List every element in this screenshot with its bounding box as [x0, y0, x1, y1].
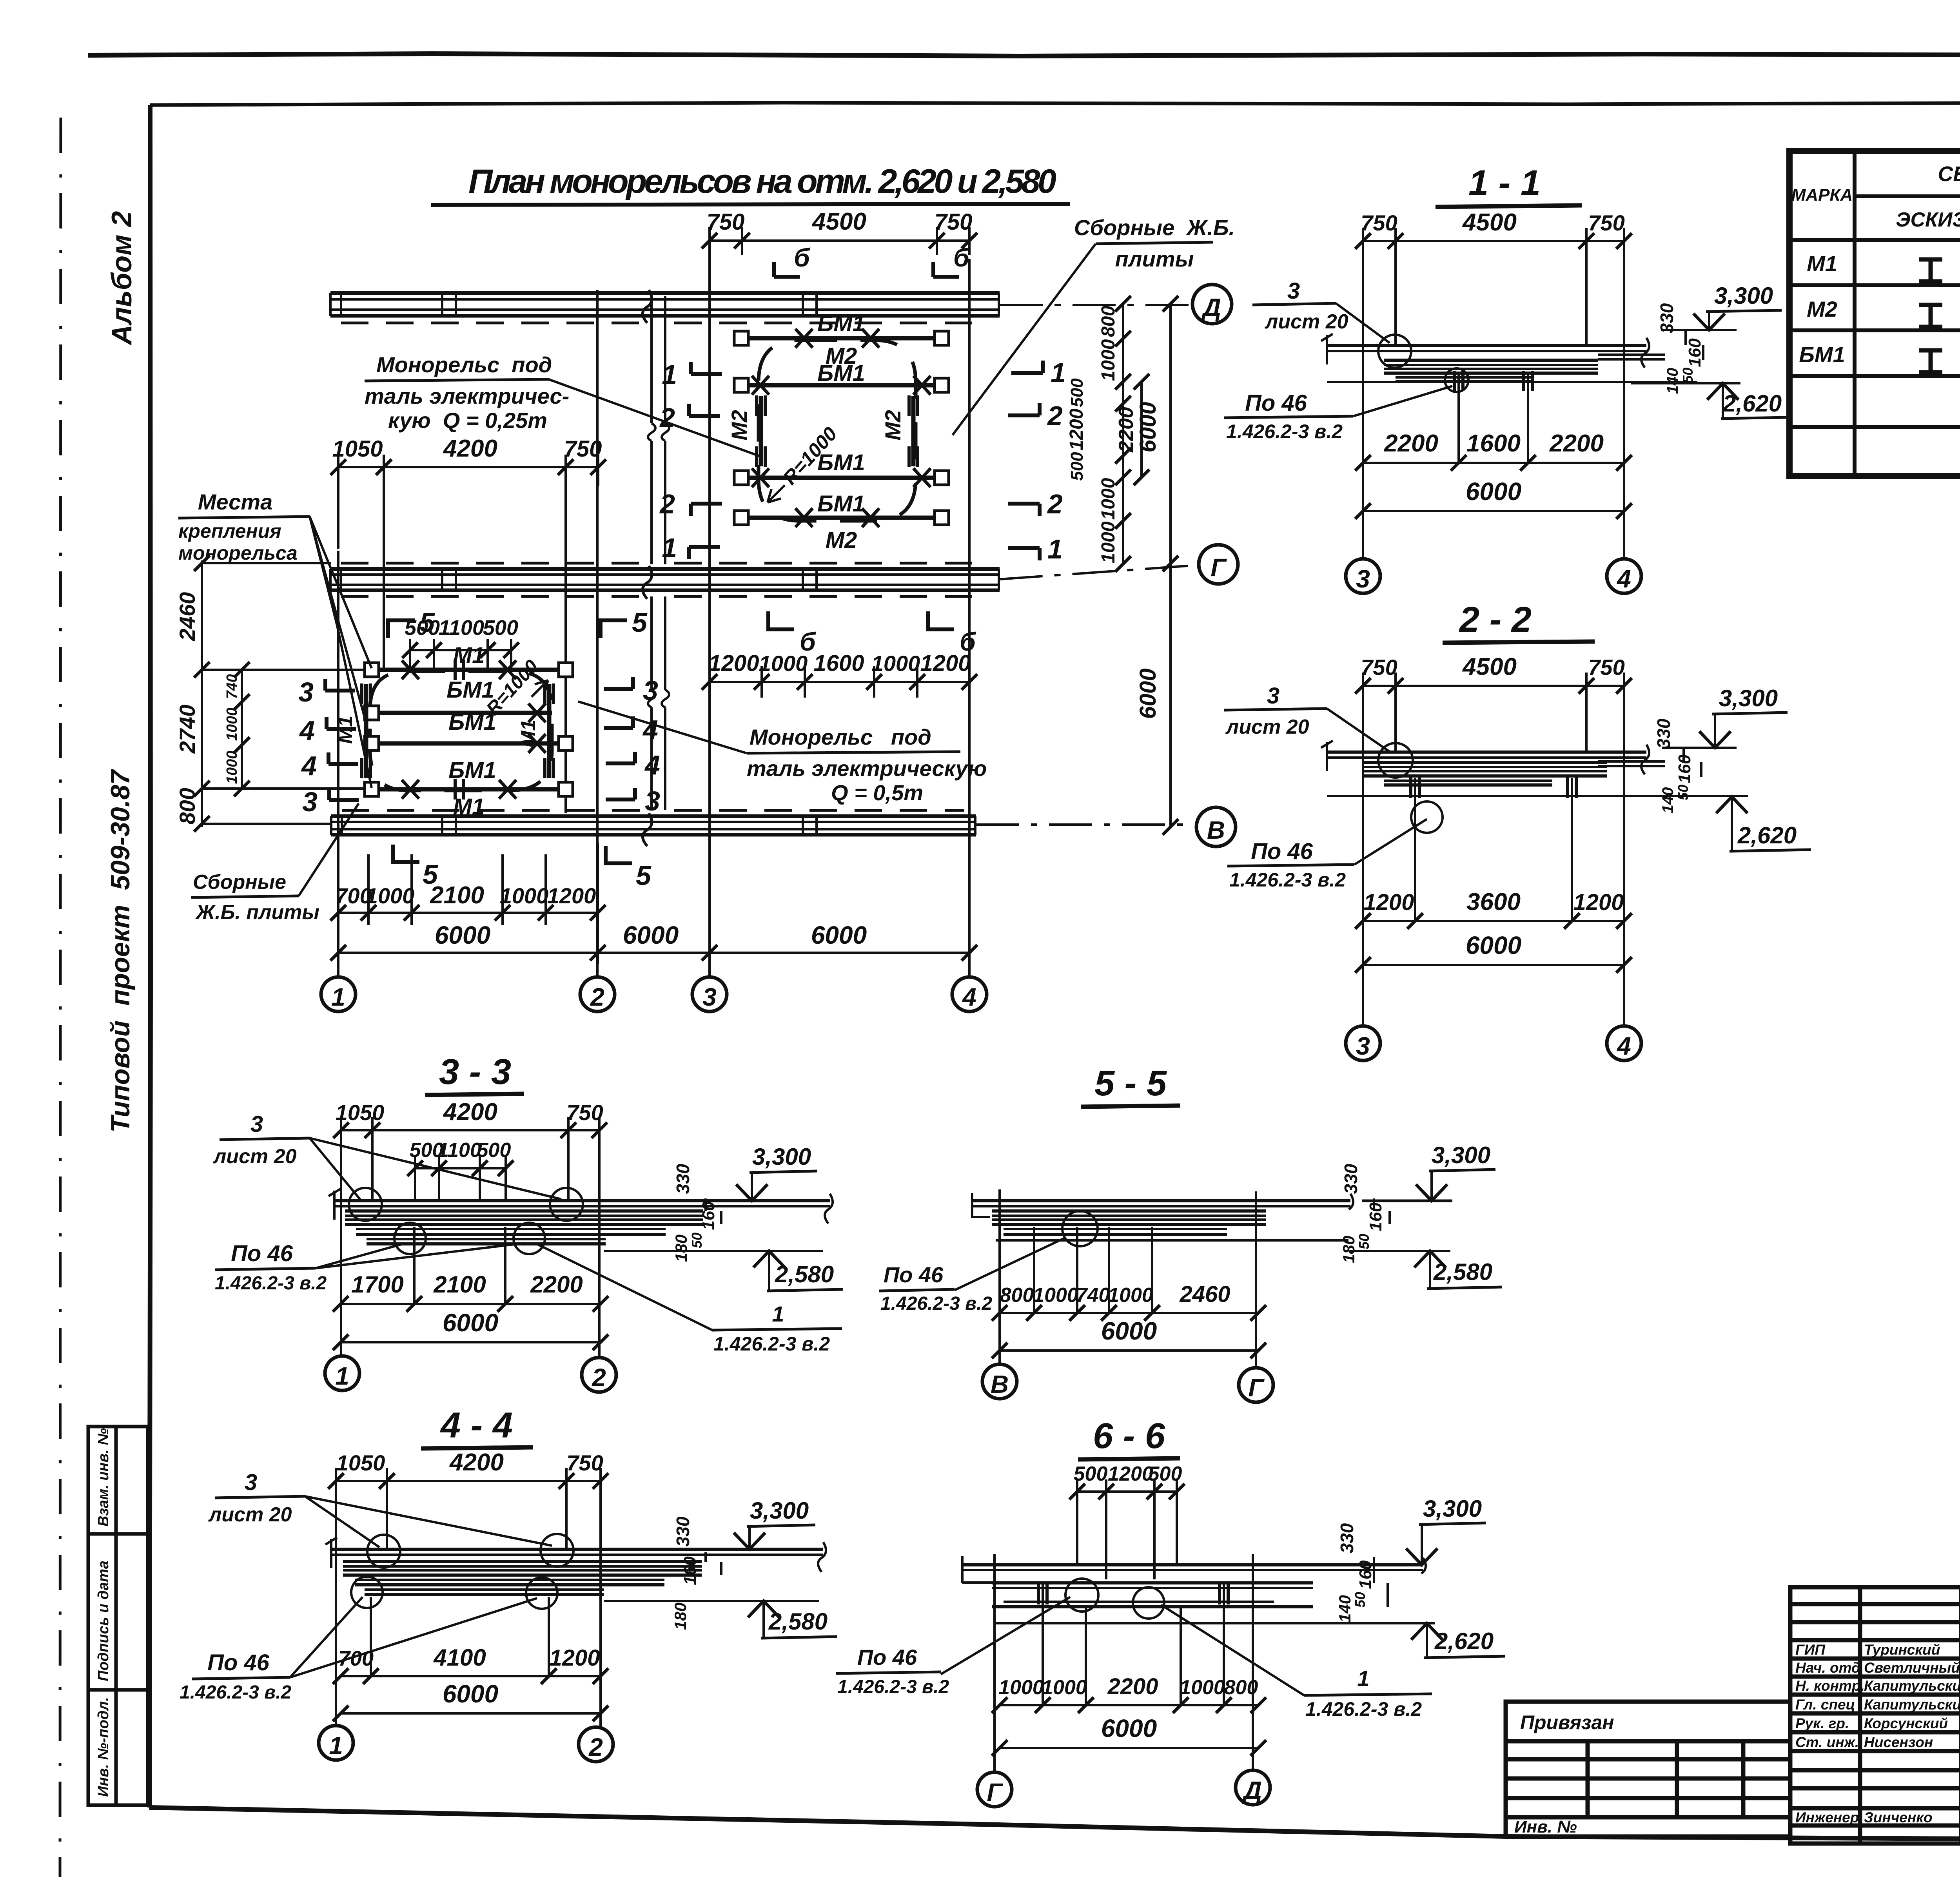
svg-text:6 - 6: 6 - 6	[1093, 1416, 1165, 1456]
section 4-4 top dims 1050/4200/750	[336, 1468, 601, 1728]
svg-text:750: 750	[707, 209, 745, 235]
svg-text:4: 4	[299, 715, 315, 746]
svg-text:3: 3	[1287, 278, 1300, 304]
svg-text:3: 3	[1356, 565, 1370, 593]
section 2-2 dims 1200/3600/1200	[1363, 920, 1624, 922]
svg-text:БМ1: БМ1	[817, 361, 865, 386]
svg-text:Ст. инж.: Ст. инж.	[1795, 1734, 1859, 1750]
section 1-1 dim 6000	[1363, 510, 1624, 512]
svg-text:1.426.2-3 в.2: 1.426.2-3 в.2	[1226, 421, 1343, 442]
section 2-2 dim 6000	[1363, 964, 1624, 966]
section 3-3 weld circles bottom	[394, 1223, 426, 1254]
left vertical dims 2460/2740/800	[202, 560, 370, 827]
svg-text:330: 330	[673, 1164, 693, 1194]
svg-text:б: б	[800, 627, 817, 656]
svg-text:6000: 6000	[443, 1309, 498, 1337]
svg-text:Типовой проект 509-30.87: Типовой проект 509-30.87	[105, 769, 135, 1133]
svg-text:Корсунский: Корсунский	[1864, 1715, 1948, 1731]
svg-text:1600: 1600	[813, 651, 864, 676]
svg-text:6000: 6000	[1135, 402, 1161, 452]
inner vertical dims 740/1000/1000	[241, 670, 243, 789]
svg-text:800: 800	[1098, 306, 1119, 337]
svg-text:750: 750	[1588, 655, 1624, 680]
svg-text:1.426.2-3 в.2: 1.426.2-3 в.2	[837, 1677, 949, 1697]
svg-text:По 46: По 46	[857, 1645, 917, 1670]
svg-text:2: 2	[588, 1733, 603, 1761]
svg-text:БМ1: БМ1	[817, 491, 865, 517]
svg-text:2200: 2200	[1107, 1674, 1158, 1699]
section 5-5 dim 6000	[1000, 1349, 1258, 1352]
svg-text:3: 3	[1356, 1032, 1370, 1060]
svg-text:1200: 1200	[549, 1645, 600, 1671]
lower monorail loop dashed path	[370, 671, 552, 790]
svg-text:По 46: По 46	[1245, 390, 1307, 416]
svg-text:По 46: По 46	[1251, 839, 1313, 864]
svg-text:160: 160	[681, 1556, 700, 1585]
svg-text:2,620: 2,620	[1737, 822, 1797, 848]
vertical beams M1 (lower loop)	[366, 684, 549, 778]
svg-text:330: 330	[1657, 303, 1677, 333]
svg-text:БМ1: БМ1	[817, 311, 865, 336]
svg-text:плиты: плиты	[1115, 247, 1194, 271]
svg-text:лист 20: лист 20	[1225, 716, 1309, 738]
svg-text:50: 50	[1352, 1592, 1368, 1608]
svg-text:Инв. №-подл.: Инв. №-подл.	[95, 1697, 112, 1797]
svg-text:4200: 4200	[449, 1449, 504, 1476]
svg-text:4200: 4200	[443, 1099, 497, 1126]
svg-text:3600: 3600	[1466, 888, 1521, 915]
svg-text:1100: 1100	[437, 1139, 481, 1162]
svg-text:Гл. спец: Гл. спец	[1795, 1697, 1855, 1713]
svg-text:3: 3	[702, 983, 717, 1011]
svg-text:М1: М1	[1807, 251, 1837, 276]
svg-text:1 - 1: 1 - 1	[1468, 163, 1541, 203]
svg-text:2: 2	[1047, 401, 1063, 431]
svg-text:160: 160	[699, 1201, 718, 1230]
svg-text:б: б	[794, 243, 811, 272]
privyazan table	[1506, 1702, 1790, 1836]
section flags 5 bottom	[393, 845, 632, 863]
svg-text:1: 1	[329, 1731, 343, 1760]
svg-text:Места: Места	[198, 489, 273, 514]
slab strip axis D	[330, 290, 1192, 323]
svg-text:180: 180	[672, 1235, 690, 1262]
bottom dim row 6000 6000 6000	[338, 925, 969, 964]
section 4-4 slab	[325, 1537, 826, 1572]
svg-text:2: 2	[590, 983, 604, 1011]
svg-text:50: 50	[689, 1233, 705, 1248]
svg-text:1000: 1000	[1098, 521, 1119, 563]
svg-text:2100: 2100	[433, 1271, 486, 1298]
svg-text:МАРКА: МАРКА	[1791, 185, 1853, 205]
svg-text:Светличный: Светличный	[1864, 1660, 1960, 1676]
beam BM1 second (lower loop)	[372, 711, 552, 715]
leaders from mesta text to loop	[310, 517, 372, 788]
dim 2200	[1140, 382, 1143, 477]
svg-text:Капитульский: Капитульский	[1864, 1678, 1960, 1694]
svg-text:1000: 1000	[366, 883, 415, 908]
section 4-4 hangers	[371, 1597, 549, 1676]
svg-text:330: 330	[1653, 718, 1674, 749]
svg-text:3,300: 3,300	[750, 1497, 809, 1524]
svg-text:1.426.2-3 в.2: 1.426.2-3 в.2	[1305, 1698, 1422, 1720]
section 6-6 dim 6000	[1000, 1747, 1258, 1749]
svg-text:3,300: 3,300	[752, 1144, 811, 1170]
dim chain under upper bay 1200/1000/1600/1000/1200	[710, 666, 969, 698]
svg-text:2: 2	[659, 402, 675, 433]
svg-text:В: В	[1207, 816, 1225, 844]
svg-text:крепления: крепления	[178, 520, 281, 542]
section 5-5 dims 800/1000/740/1000/2460	[1000, 1312, 1258, 1314]
svg-text:6000: 6000	[1466, 477, 1521, 506]
svg-text:2 - 2: 2 - 2	[1459, 600, 1532, 640]
svg-text:6000: 6000	[435, 921, 490, 949]
section 4-4 dim 6000	[341, 1712, 601, 1715]
svg-text:1000: 1000	[224, 751, 240, 784]
svg-text:4: 4	[642, 714, 658, 745]
svg-text:4500: 4500	[1462, 209, 1517, 236]
section 3-3 weld circles top	[349, 1188, 382, 1221]
svg-text:Привязан: Привязан	[1520, 1711, 1614, 1733]
section 1-1 dims 2200/1600/2200	[1363, 462, 1624, 464]
svg-text:4: 4	[1616, 1032, 1631, 1060]
svg-text:6000: 6000	[1101, 1317, 1157, 1345]
svg-text:750: 750	[566, 1100, 603, 1125]
svg-text:1000: 1000	[1180, 1676, 1225, 1699]
left torn dashed edge	[60, 118, 61, 1877]
bottom dim chain 700/1000/2100/1000/1200	[338, 843, 598, 925]
section 6-6 dims 1000/1000/2200/1000/800	[1000, 1704, 1258, 1706]
svg-text:лист 20: лист 20	[212, 1145, 297, 1168]
svg-text:1600: 1600	[1466, 430, 1521, 457]
svg-text:5: 5	[632, 607, 648, 638]
svg-text:М1: М1	[517, 720, 540, 748]
svg-text:таль электричес-: таль электричес-	[365, 384, 569, 408]
svg-text:1: 1	[331, 983, 345, 1011]
svg-text:Монорельс под: Монорельс под	[376, 352, 552, 377]
svg-text:М2: М2	[727, 410, 751, 441]
svg-text:4: 4	[962, 983, 976, 1011]
svg-text:1: 1	[662, 533, 677, 563]
svg-text:1: 1	[772, 1302, 784, 1326]
svg-text:БМ1: БМ1	[446, 677, 494, 703]
svg-text:1: 1	[662, 359, 677, 390]
section flags b top	[774, 262, 959, 277]
svg-text:4200: 4200	[443, 435, 497, 462]
svg-text:700: 700	[338, 1647, 374, 1670]
svg-text:Зинченко: Зинченко	[1864, 1809, 1933, 1825]
svg-text:3: 3	[298, 677, 314, 707]
beam BM1 top (upper loop)	[741, 336, 942, 341]
svg-text:500: 500	[1067, 378, 1087, 407]
svg-text:3: 3	[250, 1111, 263, 1137]
svg-text:6000: 6000	[1466, 931, 1521, 959]
section 1-1 top dims 750/4500/750	[1363, 228, 1624, 560]
section 1-1 weld circles	[1378, 335, 1411, 368]
svg-text:2200: 2200	[530, 1271, 583, 1298]
section 2-2 axis circles	[1346, 1026, 1380, 1060]
slab strip axis V	[331, 810, 1196, 846]
svg-text:По 46: По 46	[231, 1241, 293, 1266]
svg-text:1000: 1000	[1108, 1284, 1153, 1307]
svg-text:500: 500	[477, 1139, 511, 1162]
beam BM1 bottom (upper loop)	[741, 516, 942, 520]
section 4-4 dims 700/4100/1200	[341, 1675, 601, 1677]
svg-text:б: б	[960, 627, 976, 656]
section 4-4 axis circles	[319, 1726, 353, 1760]
svg-text:2740: 2740	[175, 705, 200, 754]
margin stamp table bottom left	[88, 1427, 148, 1805]
svg-text:1200: 1200	[547, 883, 596, 908]
svg-text:Монорельс под: Монорельс под	[750, 725, 931, 749]
svg-text:Инженер: Инженер	[1795, 1809, 1859, 1825]
section 5-5 monorail beam	[992, 1211, 1348, 1240]
svg-text:750: 750	[1588, 210, 1624, 235]
svg-text:ГИП: ГИП	[1795, 1642, 1826, 1658]
svg-text:1700: 1700	[351, 1271, 403, 1298]
beam BM1 bottom (lower loop)	[372, 787, 566, 792]
svg-text:1000: 1000	[224, 708, 240, 741]
section 6-6 leader from Po46 label	[941, 1597, 1070, 1674]
axis circles 1-4 bottom of plan	[321, 977, 356, 1012]
svg-text:лист 20: лист 20	[1264, 310, 1348, 333]
slab strip axis G	[330, 563, 1198, 599]
svg-text:740: 740	[1076, 1284, 1110, 1307]
svg-text:160: 160	[1366, 1202, 1385, 1231]
svg-text:3,300: 3,300	[1432, 1142, 1490, 1168]
svg-text:М2: М2	[1807, 297, 1837, 321]
svg-text:3: 3	[245, 1470, 257, 1495]
svg-text:1.426.2-3 в.2: 1.426.2-3 в.2	[180, 1682, 291, 1703]
section 6-6 monorail beam	[992, 1583, 1435, 1623]
svg-text:3: 3	[302, 787, 318, 817]
svg-text:3: 3	[645, 786, 660, 816]
section 5-5 axis verticals	[1000, 1189, 1256, 1368]
svg-text:1050: 1050	[336, 1450, 385, 1475]
section 5-5 slab	[972, 1193, 1452, 1218]
left bay top dims 1050/4200/750	[338, 455, 598, 813]
svg-text:1000: 1000	[998, 1676, 1044, 1699]
svg-text:В: В	[991, 1370, 1009, 1398]
svg-text:4: 4	[301, 750, 317, 781]
svg-text:1200: 1200	[1066, 408, 1087, 450]
svg-text:1050: 1050	[332, 436, 383, 462]
svg-text:3: 3	[1267, 683, 1279, 709]
svg-text:5: 5	[423, 859, 438, 890]
section 2-2 slab	[1321, 741, 1665, 774]
svg-text:БМ1: БМ1	[448, 758, 496, 783]
section 3-3 slab	[328, 1189, 833, 1224]
svg-text:2460: 2460	[1179, 1282, 1230, 1307]
svg-text:1: 1	[1047, 534, 1063, 564]
svg-text:140: 140	[1659, 787, 1677, 814]
svg-text:БМ1: БМ1	[1799, 342, 1845, 367]
section 6-6 axis circles	[977, 1772, 1012, 1807]
svg-text:Туринский: Туринский	[1864, 1642, 1940, 1658]
svg-text:4100: 4100	[433, 1644, 486, 1671]
section 2-2 top dims 750/4500/750	[1363, 673, 1624, 1026]
svg-text:1100: 1100	[439, 616, 484, 640]
svg-text:2: 2	[592, 1363, 606, 1392]
svg-text:1.426.2-3 в.2: 1.426.2-3 в.2	[215, 1273, 327, 1294]
svg-text:750: 750	[935, 209, 973, 235]
beam BM1 second (upper loop)	[741, 383, 942, 388]
svg-text:6000: 6000	[811, 921, 867, 949]
section 6-6 weld circles	[1065, 1579, 1098, 1612]
section 3-3 hangers	[414, 1227, 505, 1304]
section 3-3 top dims 1050/4200/750	[341, 1117, 599, 1358]
svg-text:3,300: 3,300	[1719, 685, 1778, 711]
svg-text:Рук. гр.: Рук. гр.	[1795, 1715, 1849, 1731]
section 3-3 dim 6000	[341, 1341, 601, 1343]
svg-text:3,300: 3,300	[1423, 1496, 1482, 1522]
svg-text:Инв. №: Инв. №	[1514, 1817, 1577, 1836]
svg-text:1200: 1200	[1363, 890, 1414, 915]
svg-text:4500: 4500	[1462, 653, 1517, 680]
svg-text:1.426.2-3 в.2: 1.426.2-3 в.2	[1229, 869, 1346, 891]
svg-text:Г: Г	[1210, 553, 1227, 582]
svg-text:6000: 6000	[623, 921, 679, 949]
svg-text:160: 160	[1356, 1560, 1375, 1589]
svg-text:По 46: По 46	[884, 1262, 944, 1287]
svg-text:3,300: 3,300	[1714, 283, 1773, 309]
svg-text:4500: 4500	[811, 208, 866, 235]
svg-text:2: 2	[659, 489, 675, 519]
svg-text:Капитульский: Капитульский	[1864, 1697, 1960, 1713]
svg-text:330: 330	[673, 1516, 693, 1546]
svg-text:4: 4	[644, 750, 660, 780]
section 1-1 slab	[1321, 334, 1665, 368]
svg-text:1: 1	[1051, 357, 1066, 388]
signature table	[1790, 1587, 1960, 1844]
svg-text:2460: 2460	[175, 592, 200, 642]
svg-text:1200: 1200	[708, 651, 759, 676]
svg-text:М2: М2	[826, 528, 857, 553]
beam BM1 third (upper loop)	[741, 476, 942, 480]
inner frame top line	[150, 101, 1960, 105]
axis circle V	[1196, 807, 1236, 847]
vertical beams M2	[761, 396, 913, 466]
section 2-2 weld circles	[1378, 743, 1413, 778]
svg-text:БМ1: БМ1	[448, 709, 496, 735]
svg-text:Нисензон: Нисензон	[1864, 1734, 1933, 1750]
svg-text:500: 500	[1074, 1463, 1108, 1485]
svg-text:Сборные: Сборные	[193, 871, 286, 894]
svg-text:Д: Д	[1242, 1776, 1262, 1804]
drawing break lines bay 2-3	[648, 296, 669, 810]
svg-text:Н. контр.: Н. контр.	[1795, 1678, 1865, 1694]
section 3-3 dims 1700/2100/2200	[341, 1303, 601, 1305]
svg-text:1: 1	[1357, 1666, 1369, 1691]
svg-text:4 - 4: 4 - 4	[440, 1405, 513, 1445]
section flags 3/4 right column	[604, 677, 635, 799]
svg-text:3: 3	[643, 675, 658, 706]
svg-text:Д: Д	[1201, 293, 1221, 321]
svg-text:500: 500	[1067, 452, 1087, 481]
beam M1 top (lower loop)	[372, 668, 566, 672]
svg-text:4: 4	[1616, 565, 1631, 593]
svg-text:Г: Г	[1248, 1374, 1265, 1402]
upper bay top dims 750/4500/750	[710, 227, 969, 255]
svg-text:Взам. инв. №: Взам. инв. №	[95, 1428, 112, 1526]
svg-text:кую Q = 0,25т: кую Q = 0,25т	[388, 408, 547, 433]
section 4-4 monorail beam	[343, 1562, 702, 1594]
section 5-5 weld circle	[1062, 1211, 1098, 1246]
svg-text:М2: М2	[880, 410, 905, 441]
section 6-6 axis verticals	[995, 1554, 1253, 1771]
right vertical dim chain 800/1000/500/1200/500/1000/1000	[1122, 304, 1124, 564]
svg-text:2,620: 2,620	[1434, 1628, 1494, 1654]
svg-text:лист 20: лист 20	[208, 1503, 292, 1526]
upper monorail loop dashed path	[759, 340, 916, 521]
table grid	[1789, 151, 1960, 476]
section 5-5 leader from Po46 label	[955, 1238, 1065, 1290]
svg-text:3 - 3: 3 - 3	[439, 1052, 511, 1092]
svg-text:800: 800	[1224, 1676, 1258, 1699]
section flags 5 top	[388, 620, 627, 638]
section 6-6 hangers	[1043, 1581, 1224, 1705]
svg-text:М1: М1	[453, 794, 485, 819]
svg-text:5: 5	[636, 860, 652, 891]
svg-text:140: 140	[1664, 368, 1681, 394]
svg-text:330: 330	[1337, 1523, 1357, 1553]
section 4-4 weld circles top	[367, 1535, 400, 1568]
svg-text:2200: 2200	[1115, 407, 1138, 453]
dim 6000 vertical D-G	[1169, 304, 1172, 827]
svg-text:2200: 2200	[1549, 430, 1604, 457]
svg-text:1050: 1050	[336, 1100, 385, 1125]
svg-text:М1: М1	[453, 643, 485, 668]
section 6-6 slab	[962, 1556, 1426, 1583]
beam BM1 third (lower loop)	[372, 741, 566, 746]
svg-text:Нач. отд: Нач. отд	[1795, 1660, 1860, 1676]
axis grid verticals	[338, 251, 969, 978]
section 5-5 hangers	[1034, 1227, 1152, 1313]
svg-text:План монорельсов на отм. 2,620: План монорельсов на отм. 2,620 и 2,580	[468, 163, 1056, 200]
svg-text:500: 500	[1148, 1463, 1182, 1485]
svg-text:6000: 6000	[1135, 668, 1161, 719]
svg-text:1000: 1000	[1042, 1676, 1087, 1699]
svg-text:2: 2	[1047, 489, 1063, 519]
svg-text:800: 800	[1000, 1284, 1034, 1307]
axis circle D	[1192, 285, 1232, 324]
svg-text:Подпись и дата: Подпись и дата	[95, 1561, 112, 1681]
svg-text:800: 800	[175, 788, 200, 824]
svg-text:Альбом 2: Альбом 2	[106, 211, 138, 346]
svg-text:1000: 1000	[1098, 478, 1119, 520]
svg-text:1.426.2-3 в.2: 1.426.2-3 в.2	[880, 1293, 992, 1314]
svg-text:6000: 6000	[443, 1680, 498, 1708]
svg-text:Сборные Ж.Б.: Сборные Ж.Б.	[1074, 215, 1235, 240]
svg-text:1.426.2-3 в.2: 1.426.2-3 в.2	[713, 1333, 830, 1355]
svg-text:1200: 1200	[1108, 1463, 1153, 1485]
svg-text:50: 50	[1356, 1234, 1372, 1249]
svg-text:160: 160	[1685, 338, 1704, 367]
svg-text:ЭСКИЗ: ЭСКИЗ	[1896, 208, 1960, 231]
svg-text:б: б	[953, 243, 970, 272]
small dims 500/1100/500	[410, 639, 511, 668]
svg-text:По 46: По 46	[207, 1650, 270, 1675]
inner frame left line	[149, 105, 151, 1807]
svg-text:330: 330	[1341, 1164, 1361, 1194]
svg-text:5 - 5: 5 - 5	[1094, 1063, 1167, 1103]
svg-text:750: 750	[566, 1450, 603, 1475]
svg-text:50: 50	[1680, 368, 1696, 383]
section 3-3 dims 500/1100/500	[415, 1156, 506, 1201]
svg-text:таль электрическую: таль электрическую	[747, 756, 987, 781]
section 4-4 weld circles bottom	[351, 1577, 383, 1608]
svg-text:740: 740	[224, 674, 240, 699]
